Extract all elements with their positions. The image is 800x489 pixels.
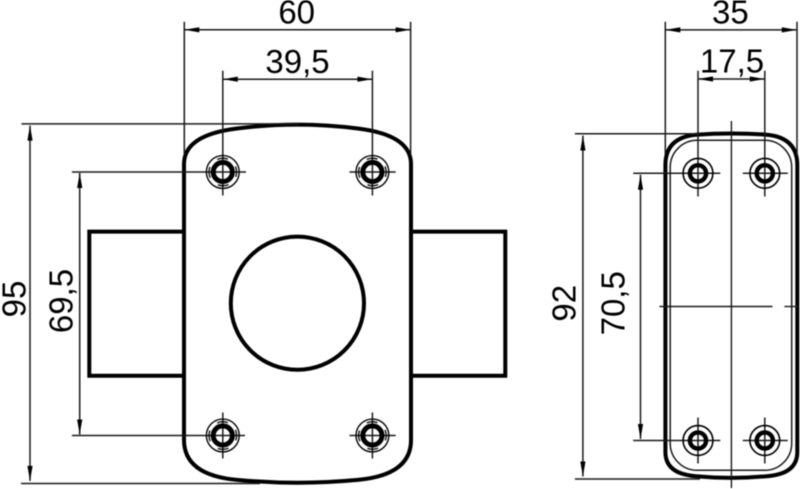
svg-text:70,5: 70,5 [595, 271, 632, 335]
svg-text:17,5: 17,5 [700, 43, 764, 80]
svg-text:92: 92 [545, 285, 582, 322]
svg-text:69,5: 69,5 [42, 269, 79, 333]
svg-text:39,5: 39,5 [265, 43, 329, 80]
svg-text:60: 60 [278, 0, 315, 31]
svg-text:95: 95 [0, 281, 33, 318]
svg-text:35: 35 [712, 0, 749, 31]
